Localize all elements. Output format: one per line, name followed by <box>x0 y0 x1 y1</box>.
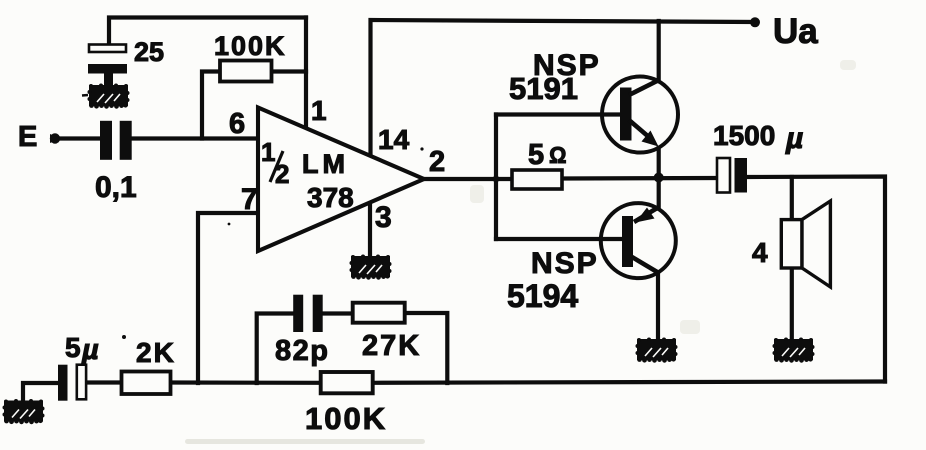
wire 100K left lead <box>202 72 220 139</box>
wire Q1 emitter to junction <box>657 148 661 209</box>
label 1/2 <box>261 137 289 189</box>
pin 1 <box>311 95 327 126</box>
svg-text:7: 7 <box>241 183 258 216</box>
svg-text:2K: 2K <box>136 337 176 368</box>
wire speaker top <box>790 177 794 220</box>
label 1500u <box>713 120 803 155</box>
wire 82p to 27K <box>323 311 353 315</box>
node Ua terminal <box>750 17 760 27</box>
wire feedback loop right <box>405 313 448 383</box>
wire 5u to 2K <box>87 380 122 384</box>
node E terminal <box>50 133 60 143</box>
pin 7 <box>241 183 258 216</box>
wire Q2 collector to ground <box>656 273 660 341</box>
label 5 ohm <box>528 139 567 171</box>
svg-text:14: 14 <box>378 124 410 155</box>
label 4 <box>752 237 768 268</box>
svg-text:µ: µ <box>81 334 99 366</box>
svg-text:6: 6 <box>229 108 245 140</box>
svg-text:5: 5 <box>65 332 81 363</box>
label 100K top <box>214 31 287 61</box>
transistor Q1 NSP5191 <box>602 77 678 153</box>
svg-text:82p: 82p <box>275 335 329 367</box>
op-amp U1 1/2 LM378 <box>258 108 424 252</box>
svg-text:100K: 100K <box>305 401 387 436</box>
node output junction <box>654 173 664 183</box>
label 5194 <box>507 278 578 314</box>
wire feedback loop left <box>257 314 293 384</box>
capacitor 82p <box>293 295 323 332</box>
ground at pin 3 <box>350 255 392 280</box>
svg-text:5191: 5191 <box>509 71 578 106</box>
svg-text:3: 3 <box>375 201 392 234</box>
wire pin1 drop <box>304 18 308 130</box>
label 378 <box>307 182 354 213</box>
resistor 27K <box>353 303 405 323</box>
wire 100K right lead <box>272 69 307 73</box>
svg-text:4: 4 <box>752 237 768 268</box>
ground under speaker <box>773 338 815 363</box>
label NSP bottom <box>531 247 599 280</box>
pin 3 <box>375 201 392 234</box>
pin 2 <box>429 146 445 178</box>
capacitor 25 <box>88 45 127 86</box>
label 25 <box>134 37 164 67</box>
label Ua <box>773 12 818 51</box>
resistor 2K <box>122 372 171 395</box>
wire bottom rail middle <box>171 380 322 384</box>
svg-text:100K: 100K <box>214 31 287 61</box>
resistor 5ohm <box>512 170 562 189</box>
wire speaker bottom <box>790 268 794 340</box>
svg-text:1: 1 <box>311 95 327 126</box>
ground bottom-left <box>3 399 45 424</box>
label 0,1 <box>95 171 137 204</box>
capacitor 5u <box>58 365 86 401</box>
label 5u <box>65 332 99 366</box>
ground under capacitor 25 <box>82 84 130 109</box>
label 27K <box>362 330 421 362</box>
label 100K bottom <box>305 401 387 436</box>
svg-text:1: 1 <box>261 137 275 167</box>
wire top-left rail <box>109 18 306 46</box>
svg-text:LM: LM <box>302 149 349 179</box>
wire pin6 <box>131 136 258 140</box>
wire bottom rail right <box>373 382 885 383</box>
resistor 100K bottom <box>321 372 373 393</box>
capacitor 1500u <box>717 158 747 193</box>
wire E input <box>53 136 101 140</box>
svg-text:2: 2 <box>275 159 289 189</box>
label E <box>18 121 37 153</box>
label 5191 <box>509 71 578 106</box>
label 2K <box>136 337 176 368</box>
wire Q1 collector <box>657 21 661 81</box>
label NSP top <box>533 49 601 82</box>
speaker LS <box>781 201 830 287</box>
svg-text:E: E <box>18 121 37 153</box>
wire op-amp output <box>424 177 512 181</box>
pin 6 <box>229 108 245 140</box>
wire base bus vertical <box>494 115 498 240</box>
resistor 100K top <box>220 61 272 82</box>
speckle noise <box>122 147 424 339</box>
pin 14 <box>378 124 410 155</box>
ground under Q2 <box>636 338 678 363</box>
svg-text:1500: 1500 <box>713 120 775 151</box>
label LM <box>302 149 349 179</box>
svg-text:Ω: Ω <box>549 142 567 168</box>
wire 5ohm to junction <box>562 176 717 181</box>
wire Q1 base <box>496 112 621 116</box>
capacitor 0,1 <box>100 121 132 160</box>
node base bus junction <box>493 176 500 183</box>
svg-text:25: 25 <box>134 37 164 67</box>
svg-text:5194: 5194 <box>507 278 578 314</box>
svg-text:0,1: 0,1 <box>95 171 137 204</box>
label 82p <box>275 335 329 367</box>
svg-text:µ: µ <box>785 122 803 155</box>
svg-text:2: 2 <box>429 146 445 178</box>
svg-text:NSP: NSP <box>531 247 599 280</box>
wire Ua rail <box>371 20 756 157</box>
svg-text:378: 378 <box>307 182 354 213</box>
wire output rail right <box>747 177 885 382</box>
wire bottom rail <box>23 383 58 400</box>
wire pin3 drop <box>368 200 372 257</box>
transistor Q2 NSP5194 <box>601 203 676 278</box>
svg-text:Ua: Ua <box>773 12 818 51</box>
wire pin7 <box>198 213 258 383</box>
svg-text:5: 5 <box>528 139 544 171</box>
wire Q2 base <box>496 237 623 241</box>
svg-text:27K: 27K <box>362 330 421 362</box>
